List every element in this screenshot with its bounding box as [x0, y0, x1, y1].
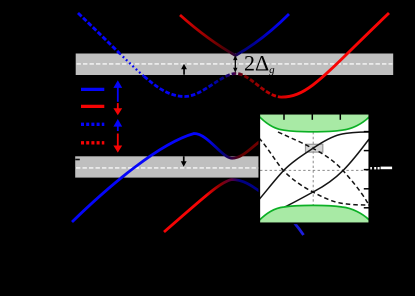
inset dashed band Db	[278, 132, 369, 205]
top panel lower branch mid section (dashed)	[144, 74, 282, 98]
black up arrow in top band	[181, 64, 187, 75]
inset crosshair vertical dashed	[312, 132, 314, 206]
inset small gray zoom box	[306, 144, 323, 152]
black down arrow in bottom band	[181, 156, 187, 166]
inset dashed band Da	[259, 138, 369, 205]
white dashed Fermi line bottom panel	[76, 167, 262, 169]
legend blue up arrow 1	[113, 80, 122, 102]
bottom panel upper branch (solid, blue to dark red)	[72, 134, 266, 223]
gray band bottom panel	[75, 156, 263, 177]
white dashed Fermi line top panel	[77, 63, 393, 65]
legend sample line red solid	[81, 105, 104, 108]
inset top edge ticks	[284, 114, 340, 120]
top panel upper branch (dashed, red to blue)	[180, 15, 236, 56]
top panel lower branch (dashed, blue to red)	[78, 13, 120, 53]
inset top green cap	[260, 114, 370, 132]
inset right edge ticks	[364, 132, 370, 208]
inset solid band S1	[260, 132, 370, 199]
legend red down arrow 2	[113, 134, 122, 153]
legend sample line red dashed	[81, 141, 104, 144]
inset white box	[259, 114, 369, 224]
top panel lower branch right arm (solid red)	[282, 13, 389, 97]
top panel upper branch right arm (dashed blue)	[236, 14, 290, 56]
white dash-dot line right of inset	[370, 167, 392, 170]
inset crosshair horizontal dashed	[260, 169, 369, 171]
2 Delta_g gap double arrow	[233, 55, 237, 73]
legend red down arrow 1	[113, 103, 122, 115]
legend blue up arrow 2	[113, 119, 122, 131]
inset frame border	[259, 114, 369, 224]
gray band top panel	[76, 54, 394, 76]
legend sample line blue solid	[81, 88, 104, 91]
top panel lower branch left arm on band (fine dots)	[120, 53, 145, 76]
inset solid band S2	[282, 139, 370, 209]
axis tick mark bottom band top-left	[75, 159, 80, 161]
bottom panel lower branch (solid, red to navy, emerges below inset)	[164, 180, 304, 236]
legend sample line blue dashed	[81, 123, 104, 126]
inset bottom green cap	[260, 205, 370, 223]
